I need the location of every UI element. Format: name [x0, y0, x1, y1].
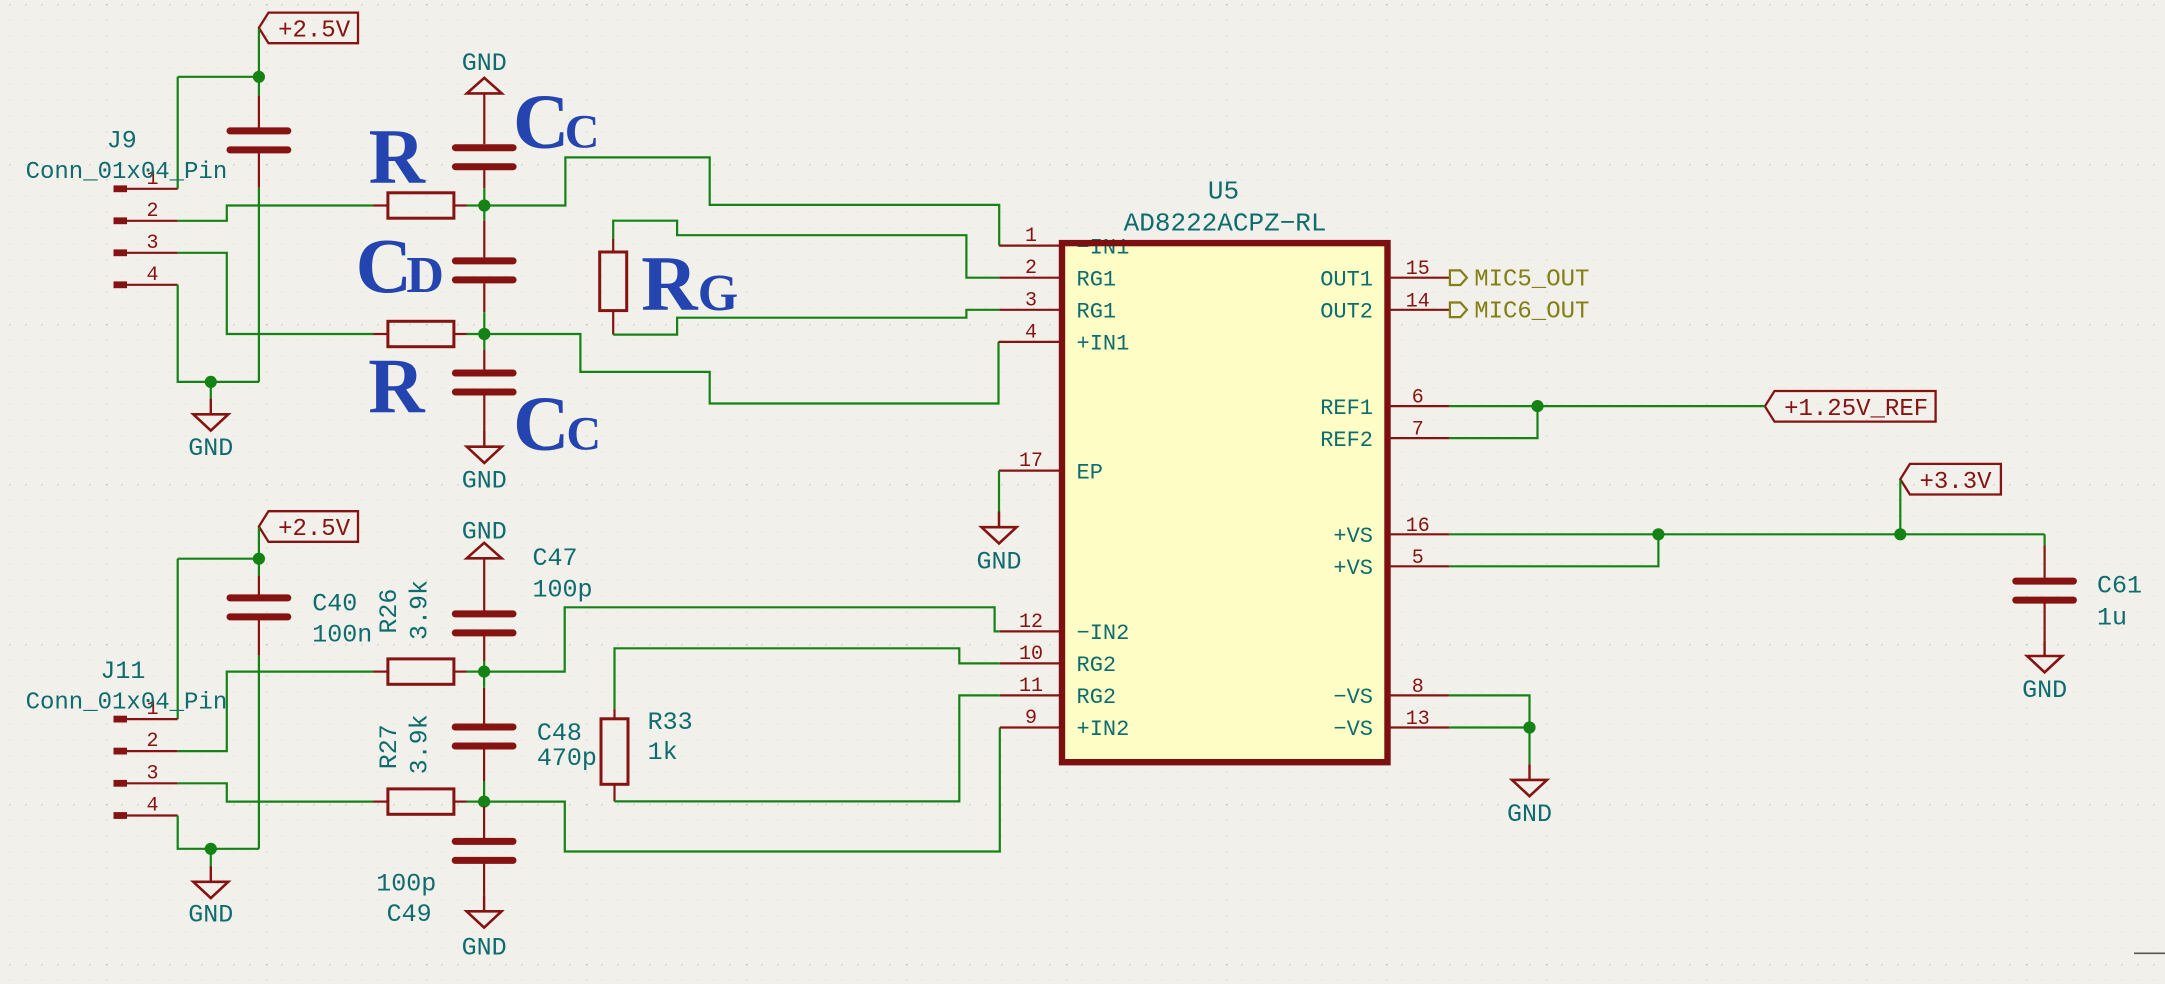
svg-text:4: 4: [146, 795, 158, 818]
svg-text:2: 2: [146, 200, 158, 223]
svg-text:REF2: REF2: [1320, 428, 1373, 453]
svg-text:R27: R27: [375, 724, 404, 769]
svg-text:C49: C49: [387, 900, 432, 929]
svg-text:D: D: [406, 247, 444, 304]
svg-text:−IN2: −IN2: [1077, 621, 1130, 646]
svg-text:G: G: [698, 265, 738, 322]
svg-text:C: C: [356, 222, 412, 309]
svg-text:C47: C47: [533, 544, 578, 573]
svg-text:3: 3: [146, 232, 158, 255]
svg-text:+3.3V: +3.3V: [1920, 469, 1993, 496]
svg-text:C: C: [566, 408, 601, 461]
svg-text:+IN1: +IN1: [1077, 332, 1130, 357]
svg-text:U5: U5: [1208, 176, 1239, 206]
svg-text:100p: 100p: [533, 575, 593, 604]
svg-text:−VS: −VS: [1333, 717, 1373, 742]
svg-text:GND: GND: [188, 901, 233, 930]
svg-text:+1.25V_REF: +1.25V_REF: [1784, 396, 1928, 423]
svg-text:J9: J9: [107, 126, 137, 155]
svg-text:+2.5V: +2.5V: [278, 18, 351, 45]
svg-text:RG2: RG2: [1077, 653, 1117, 678]
svg-text:470p: 470p: [537, 744, 597, 773]
svg-text:MIC5_OUT: MIC5_OUT: [1474, 267, 1589, 294]
svg-text:C: C: [513, 77, 569, 164]
svg-text:EP: EP: [1077, 460, 1103, 485]
svg-text:−VS: −VS: [1333, 685, 1373, 710]
svg-text:2: 2: [1025, 257, 1037, 280]
svg-text:+IN2: +IN2: [1077, 717, 1130, 742]
svg-text:GND: GND: [462, 467, 507, 496]
svg-text:+2.5V: +2.5V: [278, 516, 351, 543]
svg-text:GND: GND: [2022, 676, 2067, 705]
svg-text:R: R: [368, 343, 426, 430]
svg-text:C40: C40: [312, 590, 357, 619]
svg-text:J11: J11: [100, 657, 145, 686]
svg-text:2: 2: [146, 730, 158, 753]
svg-text:3: 3: [1025, 289, 1037, 312]
svg-text:10: 10: [1019, 643, 1043, 666]
svg-text:9: 9: [1025, 707, 1037, 730]
svg-text:GND: GND: [462, 934, 507, 963]
svg-text:R: R: [369, 113, 427, 200]
svg-text:3: 3: [146, 762, 158, 785]
svg-text:AD8222ACPZ−RL: AD8222ACPZ−RL: [1124, 209, 1327, 239]
svg-text:Conn_01x04_Pin: Conn_01x04_Pin: [26, 690, 228, 717]
svg-text:C61: C61: [2097, 572, 2142, 601]
svg-text:GND: GND: [188, 434, 233, 463]
svg-text:100n: 100n: [312, 620, 372, 649]
svg-text:1: 1: [1025, 225, 1037, 248]
svg-text:GND: GND: [976, 548, 1021, 577]
svg-text:RG1: RG1: [1077, 267, 1117, 292]
svg-text:OUT2: OUT2: [1320, 300, 1373, 325]
svg-text:1u: 1u: [2097, 604, 2127, 633]
svg-text:GND: GND: [462, 49, 507, 78]
svg-text:R33: R33: [648, 708, 693, 737]
svg-text:R26: R26: [375, 589, 404, 634]
svg-text:Conn_01x04_Pin: Conn_01x04_Pin: [26, 159, 228, 186]
svg-text:4: 4: [1025, 321, 1037, 344]
svg-text:12: 12: [1019, 611, 1043, 634]
svg-text:OUT1: OUT1: [1320, 267, 1373, 292]
svg-text:GND: GND: [1507, 800, 1552, 829]
svg-text:4: 4: [146, 264, 158, 287]
svg-text:C: C: [565, 105, 600, 158]
svg-text:MIC6_OUT: MIC6_OUT: [1474, 299, 1589, 326]
svg-text:1k: 1k: [648, 738, 678, 767]
svg-text:3.9k: 3.9k: [406, 580, 435, 640]
svg-text:3.9k: 3.9k: [406, 714, 435, 774]
svg-text:−IN1: −IN1: [1077, 235, 1130, 260]
svg-text:R: R: [641, 240, 699, 327]
svg-text:REF1: REF1: [1320, 396, 1373, 421]
svg-text:11: 11: [1019, 675, 1043, 698]
svg-text:C: C: [513, 380, 569, 467]
svg-text:RG1: RG1: [1077, 300, 1117, 325]
svg-text:100p: 100p: [376, 870, 436, 899]
svg-text:+VS: +VS: [1333, 524, 1373, 549]
svg-text:+VS: +VS: [1333, 556, 1373, 581]
svg-text:RG2: RG2: [1077, 685, 1117, 710]
